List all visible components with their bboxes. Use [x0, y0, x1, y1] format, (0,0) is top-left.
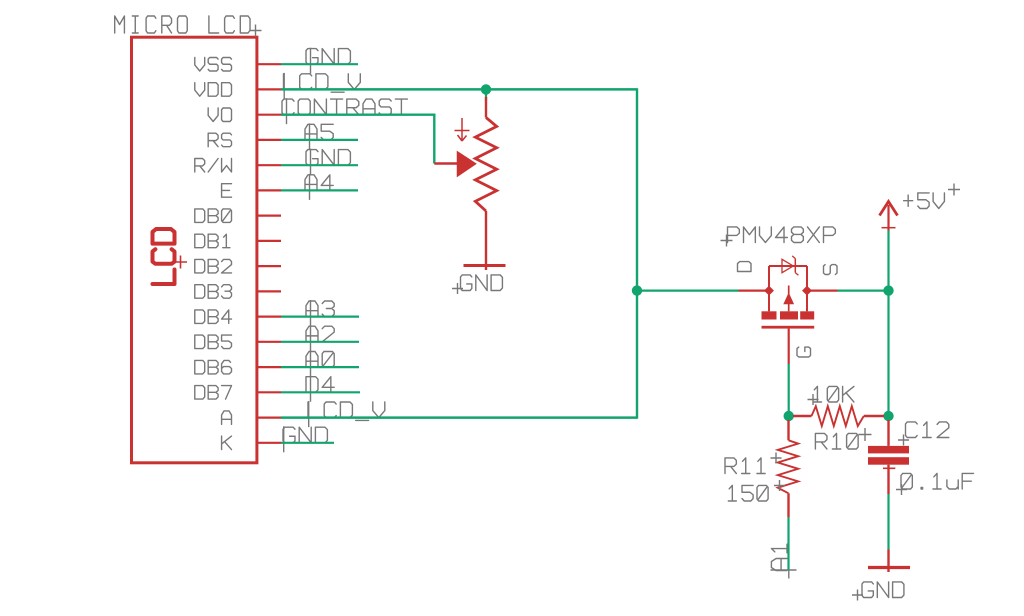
wire +5V rail up: [887, 231, 889, 291]
trimmer potentiometer (contrast pot): [434, 97, 496, 270]
pin RS of LCD: [208, 133, 281, 147]
pin K of LCD: [222, 436, 281, 450]
net label CONTRAST on pin VO net: [282, 98, 407, 124]
pin label G: [797, 347, 811, 357]
value label 10K: [808, 386, 854, 405]
resistor R11 150: [778, 420, 798, 517]
wire net LCD_V from pin VDD: [281, 88, 637, 90]
wire LCD_V to MOSFET drain: [637, 290, 739, 292]
wire net LCD_V loop VDD to A pin: [281, 89, 637, 417]
value label 0.1uF: [896, 473, 974, 495]
pin DB6 of LCD: [195, 360, 281, 374]
net label A4 on pin E net: [305, 174, 333, 200]
transistor Q1 PMV48XP p-channel MOSFET: [739, 256, 838, 364]
net label A1 (rotated) below R11: [771, 544, 797, 578]
net label A0 on pin DB6 net: [306, 351, 334, 377]
name label R11: [725, 453, 782, 474]
part name MICRO_LCD: [115, 16, 262, 37]
wire net LCD_V from pin A: [281, 417, 637, 419]
component LCD1 MICRO_LCD box: [132, 37, 257, 463]
wire MOSFET source to +5V rail: [838, 290, 889, 292]
capacitor C12 0.1uF: [868, 420, 909, 494]
wire net GND below C12: [887, 494, 889, 550]
part value LCD (rotated, red): [153, 229, 188, 284]
value label 150: [728, 480, 785, 501]
power symbol +5V arrow: [880, 202, 898, 231]
wire net A0 from pin DB6: [281, 366, 359, 368]
wire +5V rail down to R10/C12: [887, 291, 889, 416]
wire net A2 from pin DB5: [281, 341, 359, 343]
pin VDD of LCD: [195, 83, 281, 97]
pin DB2 of LCD: [195, 259, 281, 273]
ground symbol GND under C12: [852, 550, 910, 601]
wire net GND from pin K: [281, 442, 334, 444]
pin label S: [824, 265, 838, 275]
ground symbol GND under trimmer: [452, 266, 506, 295]
pin DB1 of LCD: [195, 234, 281, 248]
junction dot R10 right / C12: [883, 411, 893, 421]
net label GND on pin VSS net: [306, 48, 350, 74]
junction dot LCD_V drain branch: [632, 285, 642, 295]
wire net D4 from pin DB7: [281, 391, 360, 393]
pin DB5 of LCD: [195, 335, 281, 349]
wire net CONTRAST from pin V0 to trimmer wiper: [281, 115, 434, 164]
net label GND on pin K net: [283, 426, 327, 452]
pin A of LCD: [222, 411, 281, 425]
part name PMV48XP: [721, 227, 836, 247]
pin label D: [738, 262, 752, 272]
pin E of LCD: [222, 184, 281, 198]
pin DB3 of LCD: [195, 285, 281, 299]
net label A2 on pin DB5 net: [306, 325, 334, 351]
net label GND on pin R/W net: [306, 149, 350, 175]
junction dot R10 left / R11: [784, 411, 794, 421]
pin DB0 of LCD: [195, 209, 281, 223]
power label +5V: [904, 184, 960, 209]
net label A3 on pin DB4 net: [306, 300, 334, 326]
net label D4 on pin DB7 net: [306, 376, 334, 402]
junction dot source/+5V rail: [883, 285, 893, 295]
junction dot trimmer top: [481, 84, 491, 94]
net label LCD_V on pin A net: [308, 401, 385, 427]
wire net GND from pin VSS: [281, 63, 358, 65]
wire stub LCD_V to trimmer top: [485, 89, 487, 101]
resistor R10 10K: [793, 406, 884, 426]
net label LCD_V on pin VDD net: [284, 73, 361, 99]
pin VSS of LCD: [195, 58, 281, 72]
wire gate net down: [788, 364, 790, 416]
name label R10: [815, 428, 871, 449]
pin DB7 of LCD: [195, 386, 281, 400]
wire net GND from pin R/W: [281, 164, 358, 166]
pin VO of LCD: [208, 108, 281, 122]
pin R/W of LCD: [195, 159, 281, 173]
net label A5 on pin RS net: [305, 123, 333, 149]
wire net A4 from pin E: [281, 189, 358, 191]
wire net A3 from pin DB4: [281, 316, 359, 318]
wire net A5 from pin RS: [281, 139, 358, 141]
pin DB4 of LCD: [195, 310, 281, 324]
wire net A1 below R11: [787, 517, 789, 570]
name label C12: [898, 422, 949, 446]
